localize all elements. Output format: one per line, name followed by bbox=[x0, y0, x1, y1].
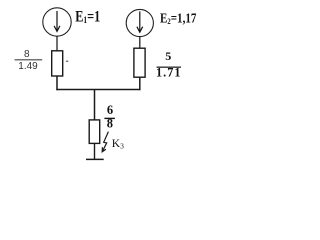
svg-text:5: 5 bbox=[165, 49, 171, 63]
svg-text:8: 8 bbox=[24, 49, 30, 60]
svg-text:8: 8 bbox=[107, 117, 113, 131]
svg-text:E1=1: E1=1 bbox=[75, 9, 100, 26]
svg-text:1.49: 1.49 bbox=[18, 61, 38, 72]
svg-text:1.71: 1.71 bbox=[156, 65, 182, 79]
svg-text:K3: K3 bbox=[112, 138, 124, 150]
svg-text:E2=1,17: E2=1,17 bbox=[160, 10, 196, 26]
svg-text:6: 6 bbox=[107, 103, 113, 117]
